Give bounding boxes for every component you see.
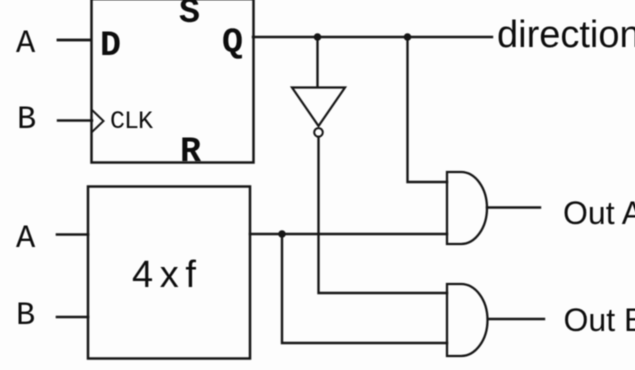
- junction node N3: [278, 230, 286, 238]
- wire Q output to direction: [253, 36, 492, 38]
- wire A to D input: [58, 39, 91, 42]
- wire B to 4xf: [57, 316, 88, 319]
- svg-text:R: R: [180, 132, 201, 172]
- svg-text:D: D: [100, 26, 121, 66]
- wire N2 to AND gate U3 top input: [408, 37, 448, 182]
- inverter U2: [292, 88, 345, 137]
- svg-text:B: B: [16, 297, 35, 334]
- svg-text:A: A: [16, 220, 36, 257]
- wire 4xf output to AND gate U3 bottom input: [250, 233, 447, 235]
- wire N1 to inverter input: [316, 37, 318, 87]
- frequency multiplier block 4xf: [88, 187, 250, 359]
- wire inverter output to AND gate U4 top input: [319, 137, 448, 293]
- wire U3 output to Out A: [487, 206, 540, 208]
- svg-text:S: S: [179, 0, 200, 33]
- D flip-flop U1 body: [92, 0, 254, 163]
- wire U4 output to Out B: [488, 318, 544, 320]
- wire B to CLK input: [58, 119, 92, 121]
- wire A to 4xf: [57, 233, 88, 236]
- junction node N1: [314, 33, 322, 41]
- svg-text:Q: Q: [222, 23, 243, 63]
- svg-text:Out B: Out B: [564, 302, 635, 338]
- svg-text:direction: direction: [497, 14, 635, 56]
- junction node N2: [404, 33, 412, 41]
- svg-text:CLK: CLK: [110, 107, 153, 136]
- AND gate U4: [447, 284, 488, 356]
- svg-text:Out A: Out A: [563, 195, 635, 231]
- svg-text:4 x f: 4 x f: [132, 254, 196, 296]
- wire N3 to AND gate U4 bottom input: [282, 234, 447, 343]
- clock edge marker: [93, 111, 104, 132]
- svg-text:A: A: [16, 25, 36, 62]
- svg-text:B: B: [17, 101, 36, 138]
- AND gate U3: [447, 172, 487, 244]
